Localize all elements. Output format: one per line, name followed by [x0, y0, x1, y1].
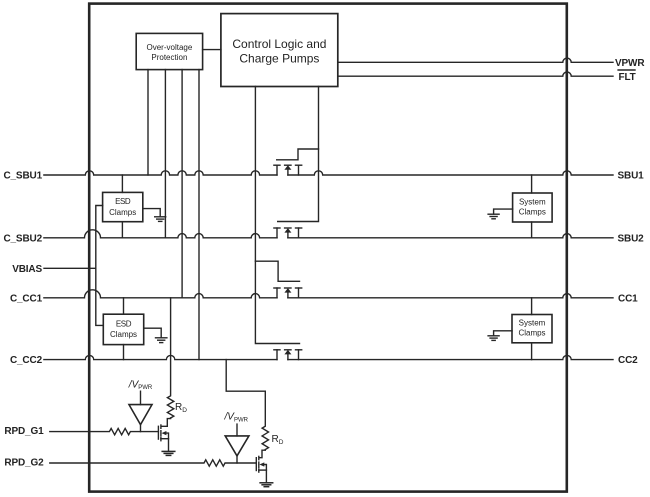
wire OVP sense line 1 to C_SBU1 — [147, 70, 149, 175]
wire C_CC1 (left segment of CC1 switch line) — [44, 290, 277, 298]
IC outer boundary box — [89, 4, 567, 492]
wire pull-down chain from C_CC1 with resistor RD1 — [167, 298, 173, 418]
wire C_SBU2 (left segment of SBU2 switch line) — [44, 230, 277, 238]
svg-text:/VPWR: /VPWR — [224, 412, 249, 424]
wire ESD2 bottom pin to C_CC2 — [123, 345, 125, 360]
pass transistor M1 on SBU1 line — [274, 165, 302, 175]
inverter buffer for RPD_G2 — [225, 436, 249, 456]
wire OVP sense line 2 to C_SBU2 — [164, 70, 166, 238]
wire ESD2 top pin to C_CC1 — [123, 298, 125, 314]
ground at SC1 — [488, 214, 499, 219]
svg-text:VBIAS: VBIAS — [12, 264, 42, 275]
ESD clamps box 2 — [103, 314, 143, 344]
svg-text:Control Logic and: Control Logic and — [232, 37, 326, 51]
svg-text:System: System — [519, 319, 546, 328]
wire SC2 ground stub — [494, 331, 512, 336]
ground at M6 source — [260, 483, 273, 487]
svg-text:SBU2: SBU2 — [618, 233, 645, 244]
wire gate branch to M1 — [277, 149, 319, 160]
wire ESD1 bottom pin to C_SBU2 — [121, 222, 123, 238]
wire CC2 (right segment) — [288, 355, 613, 359]
wire SC2 top pin to CC1 — [531, 298, 533, 315]
wire VBIAS bus linking ESD clamp boxes — [96, 206, 104, 326]
ground at M5 source — [162, 451, 175, 455]
wire gate drive for CC switches (control logic to M4 gate) — [255, 87, 299, 344]
wire FLT from control logic to right edge — [338, 72, 613, 76]
transistor M5 (RPD_G1 pull-down NMOS) — [158, 425, 168, 451]
wire RPD_G1 input with series resistor — [50, 428, 159, 434]
wire SC1 top pin to SBU1 — [531, 175, 533, 193]
wire RPD_G2 input with series resistor — [50, 460, 256, 466]
svg-text:ESD: ESD — [116, 319, 132, 328]
svg-text:SBU1: SBU1 — [618, 171, 645, 182]
overbar for FLT label — [618, 69, 635, 71]
wire OVP to control logic — [203, 49, 221, 51]
svg-text:System: System — [519, 198, 546, 207]
inverter buffer for RPD_G1 — [129, 405, 152, 425]
svg-text:RPD_G2: RPD_G2 — [4, 458, 44, 469]
wire buffer 2 output to gate line — [236, 456, 238, 463]
wire /VPWR stub above buffer 1 — [140, 391, 142, 404]
svg-text:Clamps: Clamps — [518, 328, 545, 337]
wire gate branch to M3 — [255, 261, 299, 281]
wire SC1 bottom pin to SBU2 — [531, 222, 533, 238]
wire C_SBU1 (left segment of SBU1 switch line) — [44, 171, 277, 175]
svg-text:Clamps: Clamps — [110, 330, 137, 339]
svg-text:C_SBU2: C_SBU2 — [3, 233, 42, 244]
svg-text:C_SBU1: C_SBU1 — [3, 171, 42, 182]
wire ESD1 top pin to C_SBU1 — [121, 175, 123, 192]
svg-text:Charge Pumps: Charge Pumps — [239, 51, 319, 65]
svg-text:ESD: ESD — [115, 197, 131, 206]
wire RD2 to M6 drain jog — [260, 450, 266, 458]
wire buffer 1 output to gate line — [140, 425, 142, 432]
pass transistor M2 on SBU2 line — [274, 228, 302, 238]
wire SBU1 (right segment) — [288, 171, 613, 175]
wire VBIAS — [44, 267, 96, 269]
svg-text:C_CC1: C_CC1 — [10, 293, 43, 304]
over-voltage protection box — [136, 33, 202, 69]
svg-text:VPWR: VPWR — [615, 58, 645, 69]
svg-text:CC1: CC1 — [618, 293, 638, 304]
svg-text:/VPWR: /VPWR — [128, 379, 153, 391]
wire OVP sense line 4 to C_CC2 — [198, 70, 200, 360]
wire /VPWR stub above buffer 2 — [236, 424, 238, 436]
svg-text:RD: RD — [272, 434, 284, 446]
pass transistor M3 on CC1 line — [274, 288, 302, 298]
wire RD1 to M5 drain jog — [162, 418, 171, 426]
wire C_CC2 (left segment of CC2 switch line) — [44, 355, 277, 359]
wire gate drive for SBU switches (control logic to M2 gate) — [278, 87, 319, 222]
wire CC1 (right segment) — [288, 294, 613, 298]
svg-text:Protection: Protection — [151, 53, 187, 62]
ESD clamps box 1 — [103, 192, 143, 221]
ground at ESD1 — [155, 217, 166, 222]
system clamps box 2 — [512, 315, 552, 343]
svg-text:Clamps: Clamps — [109, 208, 136, 217]
wire ESD1 ground stub — [143, 209, 160, 217]
system clamps box 1 — [513, 193, 553, 222]
wire SC1 ground stub — [494, 209, 513, 214]
svg-text:C_CC2: C_CC2 — [10, 355, 43, 366]
svg-text:Clamps: Clamps — [519, 207, 546, 216]
svg-text:RD: RD — [175, 402, 187, 414]
pass transistor M4 on CC2 line — [274, 350, 302, 360]
wire VPWR from control logic to right edge — [338, 58, 613, 62]
svg-text:RPD_G1: RPD_G1 — [4, 426, 44, 437]
wire ESD2 ground stub — [144, 328, 162, 337]
ground at SC2 — [488, 336, 499, 341]
wire SC2 bottom pin to CC2 — [531, 343, 533, 360]
svg-text:Over-voltage: Over-voltage — [147, 43, 193, 52]
control logic and charge pumps box — [221, 14, 338, 87]
transistor M6 (RPD_G2 pull-down NMOS) — [256, 456, 266, 482]
svg-text:FLT: FLT — [619, 72, 636, 83]
svg-text:CC2: CC2 — [618, 355, 638, 366]
wire SBU2 (right segment) — [288, 234, 613, 238]
wire pull-down chain from C_CC2 with resistor RD2 — [226, 360, 268, 450]
wire OVP sense line 3 to C_CC1 — [181, 70, 183, 298]
ground at ESD2 — [156, 338, 167, 343]
